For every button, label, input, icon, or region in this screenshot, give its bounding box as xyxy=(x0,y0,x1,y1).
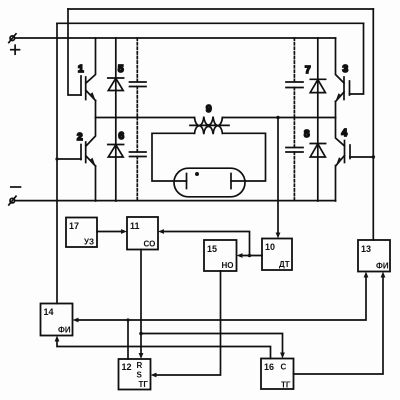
terminal - input xyxy=(9,187,21,205)
block 14 FI xyxy=(41,304,73,336)
wire negative rail xyxy=(15,200,336,202)
wire L2 right drop to Q3 gate xyxy=(350,23,364,94)
wire mid rail right xyxy=(222,117,335,119)
diode D6 xyxy=(108,118,125,202)
node Q4 gate tap xyxy=(372,155,376,159)
wire SO branch to C of 16 xyxy=(141,334,283,354)
svg-text:S: S xyxy=(137,371,143,380)
svg-text:С: С xyxy=(281,363,287,372)
node DT branch xyxy=(248,254,252,258)
block 12 RS trigger xyxy=(119,359,151,390)
svg-text:14: 14 xyxy=(44,307,54,317)
svg-text:ФИ: ФИ xyxy=(58,326,71,335)
svg-text:5: 5 xyxy=(118,64,124,75)
capacitor C8 (dashed column) xyxy=(286,118,303,202)
svg-text:6: 6 xyxy=(119,131,125,142)
wire trigger16 to 14 bottom xyxy=(57,341,271,359)
capacitor C5 (dashed column) xyxy=(130,38,147,118)
wire DT branch to SO xyxy=(163,232,250,256)
wire mid rail left xyxy=(96,117,195,119)
wire 17 to 11 xyxy=(97,231,122,233)
diode D7 xyxy=(305,38,326,118)
transistor Q3 xyxy=(335,38,349,118)
svg-text:17: 17 xyxy=(69,221,79,231)
wire lamp loop lower-left xyxy=(152,133,195,181)
node midpoint tap xyxy=(276,116,280,120)
svg-text:ФИ: ФИ xyxy=(376,262,389,271)
wire L2 second control bus xyxy=(57,22,364,24)
svg-text:7: 7 xyxy=(305,65,311,76)
wire SO output to R of 12 xyxy=(140,250,142,355)
svg-text:16: 16 xyxy=(264,362,274,372)
transistor Q4 xyxy=(336,118,374,202)
svg-text:1: 1 xyxy=(78,64,84,75)
wire to 14 right xyxy=(78,319,129,321)
wire lamp loop lower-right xyxy=(222,133,265,181)
diode D8 xyxy=(304,118,326,202)
svg-text:СО: СО xyxy=(144,240,156,249)
svg-text:15: 15 xyxy=(207,244,217,254)
block 16 C trigger xyxy=(261,359,294,390)
lamp EL1 xyxy=(174,168,245,197)
wire L1 right drop to box13 top xyxy=(372,9,374,240)
diode D5 xyxy=(108,38,124,118)
wire L1 top control bus xyxy=(68,8,373,10)
wire NO output to S of 12 xyxy=(156,271,221,375)
node Q2 gate tap xyxy=(55,157,58,160)
wire positive rail xyxy=(15,37,336,39)
svg-text:ТГ: ТГ xyxy=(139,380,149,389)
wire L2 left drop to box14 top xyxy=(56,23,58,303)
svg-text:10: 10 xyxy=(265,242,275,252)
svg-text:2: 2 xyxy=(77,132,83,143)
wire to 13 bottom left xyxy=(128,277,366,321)
svg-text:УЗ: УЗ xyxy=(84,238,94,247)
transistor Q1 xyxy=(78,38,96,118)
svg-text:9: 9 xyxy=(206,104,212,115)
node SO branch xyxy=(139,332,143,336)
svg-text:3: 3 xyxy=(343,64,349,75)
wire trigger16 output to 13 bottom right xyxy=(294,277,384,375)
block 10 DT xyxy=(262,239,292,271)
svg-text:R: R xyxy=(137,361,143,370)
svg-text:НО: НО xyxy=(222,261,234,270)
transistor Q2 xyxy=(77,118,96,202)
terminal + input xyxy=(9,34,20,54)
svg-text:ТГ: ТГ xyxy=(281,381,291,390)
block 13 FI xyxy=(358,240,390,272)
svg-text:ДТ: ДТ xyxy=(279,260,290,269)
svg-text:8: 8 xyxy=(304,129,310,140)
svg-text:13: 13 xyxy=(361,244,371,254)
wire DT output to NO xyxy=(242,255,263,257)
block 17 UZ xyxy=(66,218,97,248)
capacitor C7 (dashed column) xyxy=(286,38,303,118)
wire tap to current sensor xyxy=(277,118,279,234)
inductor L9 xyxy=(190,104,229,134)
svg-text:4: 4 xyxy=(342,128,348,139)
wire L1 left drop to Q1 gate xyxy=(68,9,81,95)
wire Q2 gate lead xyxy=(57,158,81,160)
block 15 NO xyxy=(204,240,237,271)
svg-text:11: 11 xyxy=(130,221,140,231)
capacitor C6 (dashed column) xyxy=(130,118,147,202)
node trigger12 branch xyxy=(126,318,129,321)
svg-text:12: 12 xyxy=(122,362,132,372)
wire trigger12 output bus xyxy=(127,320,129,359)
block 11 SO xyxy=(127,217,158,250)
